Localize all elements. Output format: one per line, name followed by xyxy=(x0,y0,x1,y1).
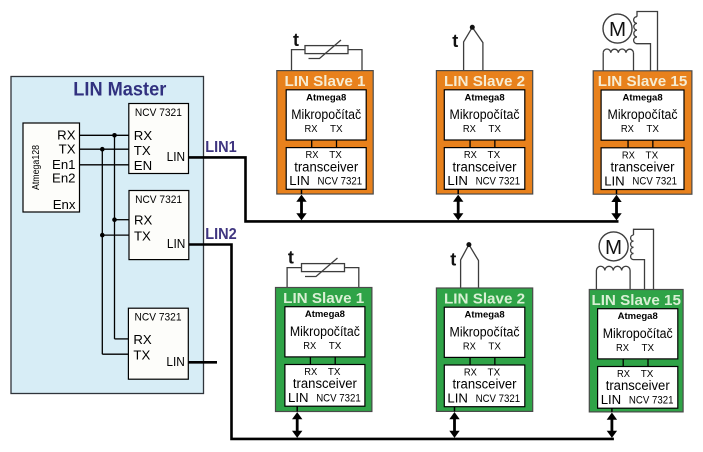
LIN Slave 15 TX wire between MCU and transceiver xyxy=(652,140,654,148)
LIN Slave 1 bus connection double arrow xyxy=(292,412,302,438)
svg-text:RX: RX xyxy=(303,341,316,352)
svg-text:M: M xyxy=(609,18,626,41)
LIN Slave 2 microcontroller Atmega8 box xyxy=(444,90,525,140)
thermocouple temperature probe xyxy=(450,242,478,288)
LIN1 bus wire from NCV1 xyxy=(189,157,619,221)
junction dot TX-NCV2 xyxy=(100,233,105,238)
LIN3 stub wire from NCV3 xyxy=(188,361,217,364)
LIN Slave 2 transceiver NCV 7321 box xyxy=(444,148,525,190)
thermistor temperature sensor xyxy=(292,30,363,71)
svg-text:LIN Slave 1: LIN Slave 1 xyxy=(283,290,365,307)
motor winding A (horizontal coil) xyxy=(596,266,630,289)
LIN Slave 1 microcontroller Atmega8 box xyxy=(285,307,365,357)
svg-text:NCV 7321: NCV 7321 xyxy=(135,194,182,206)
svg-text:LIN Slave 2: LIN Slave 2 xyxy=(444,290,525,307)
svg-text:LIN: LIN xyxy=(604,173,625,188)
svg-text:TX: TX xyxy=(330,124,343,135)
LIN Slave 15 LIN pin stub xyxy=(611,408,613,412)
LIN Slave 1 LIN pin stub xyxy=(296,406,298,411)
motor winding A (horizontal coil) xyxy=(603,49,633,71)
svg-text:LIN Slave 1: LIN Slave 1 xyxy=(284,73,366,90)
thermistor temperature sensor xyxy=(287,248,359,288)
LIN Slave 15 LIN pin stub xyxy=(616,190,618,195)
svg-text:LIN Master: LIN Master xyxy=(73,79,167,100)
svg-text:RX: RX xyxy=(621,124,634,135)
svg-text:transceiver: transceiver xyxy=(453,159,517,174)
LIN Slave 2 RX wire between MCU and transceiver xyxy=(469,140,471,148)
wire RX from Atmega128 to NCV1 xyxy=(80,134,129,136)
transceiver NCV 7321 #1 in master xyxy=(129,104,189,174)
LIN Slave 15 TX wire between MCU and transceiver xyxy=(647,359,649,367)
svg-text:LIN: LIN xyxy=(167,236,186,251)
svg-text:Atmega8: Atmega8 xyxy=(622,93,662,104)
LIN Slave 2 enclosure box xyxy=(436,71,532,194)
LIN Slave 2 microcontroller Atmega8 box xyxy=(444,307,525,357)
svg-text:NCV 7321: NCV 7321 xyxy=(316,392,361,404)
microcontroller Atmega128 xyxy=(23,123,80,212)
LIN Slave 15 RX wire between MCU and transceiver xyxy=(627,140,629,148)
svg-text:RX: RX xyxy=(134,213,153,228)
LIN2 bus wire from NCV2 xyxy=(189,245,614,439)
svg-text:Atmega8: Atmega8 xyxy=(306,92,346,103)
svg-text:Atmega8: Atmega8 xyxy=(305,309,345,320)
LIN Slave 2 enclosure box xyxy=(436,288,532,411)
LIN Slave 2 TX wire between MCU and transceiver xyxy=(494,357,496,365)
LIN Slave 15 microcontroller Atmega8 box xyxy=(601,90,684,140)
svg-text:TX: TX xyxy=(488,341,501,352)
LIN Slave 2 RX wire between MCU and transceiver xyxy=(469,357,471,365)
thermocouple temperature probe xyxy=(452,25,483,71)
svg-text:LIN Slave 15: LIN Slave 15 xyxy=(591,292,681,309)
svg-text:RX: RX xyxy=(133,332,152,347)
svg-text:t: t xyxy=(293,30,299,50)
motor winding B (vertical coil) xyxy=(634,12,658,71)
svg-text:Enx: Enx xyxy=(53,197,76,212)
LIN Slave 1 enclosure box xyxy=(276,288,372,412)
svg-text:transceiver: transceiver xyxy=(611,160,675,175)
LIN Slave 1 bus connection double arrow xyxy=(296,195,306,221)
transceiver NCV 7321 #2 in master xyxy=(129,191,189,260)
wire RX spur to NCV3 xyxy=(115,338,129,340)
svg-text:TX: TX xyxy=(646,124,659,135)
svg-text:NCV 7321: NCV 7321 xyxy=(476,393,521,405)
svg-text:TX: TX xyxy=(642,343,655,354)
svg-text:RX: RX xyxy=(305,124,318,135)
LIN Slave 1 transceiver NCV 7321 box xyxy=(286,148,366,190)
svg-text:NCV 7321: NCV 7321 xyxy=(632,176,677,188)
svg-text:NCV 7321: NCV 7321 xyxy=(135,107,182,119)
svg-text:LIN: LIN xyxy=(288,390,309,405)
LIN Slave 2 TX wire between MCU and transceiver xyxy=(494,140,496,148)
svg-text:LIN Slave 15: LIN Slave 15 xyxy=(598,73,688,90)
LIN Slave 15 microcontroller Atmega8 box xyxy=(598,309,678,359)
svg-text:transceiver: transceiver xyxy=(606,378,670,393)
LIN Slave 15 enclosure box xyxy=(593,71,692,194)
LIN Slave 2 bus connection double arrow xyxy=(449,412,459,438)
svg-text:RX: RX xyxy=(57,128,76,143)
svg-text:LIN: LIN xyxy=(601,392,622,407)
LIN Slave 15 bus connection double arrow xyxy=(611,195,621,221)
svg-text:M: M xyxy=(605,236,622,259)
wire TX spur to NCV2 xyxy=(102,234,129,236)
svg-text:EN: EN xyxy=(134,158,152,173)
LIN Slave 15 transceiver NCV 7321 box xyxy=(598,367,678,409)
LIN Slave 1 LIN pin stub xyxy=(301,189,303,194)
LIN Slave 15 transceiver NCV 7321 box xyxy=(601,148,684,190)
svg-text:Mikropočítač: Mikropočítač xyxy=(290,324,360,339)
svg-text:LIN1: LIN1 xyxy=(205,139,237,156)
svg-text:RX: RX xyxy=(463,341,476,352)
junction dot RX-NCV1 xyxy=(112,133,117,138)
junction dot TX-NCV1 xyxy=(100,147,105,152)
wire RX spur to NCV2 xyxy=(115,219,130,221)
LIN Slave 2 LIN pin stub xyxy=(454,407,456,412)
svg-text:Mikropočítač: Mikropočítač xyxy=(603,326,673,341)
LIN Slave 2 transceiver NCV 7321 box xyxy=(444,365,525,407)
svg-text:LIN: LIN xyxy=(289,173,310,188)
svg-text:transceiver: transceiver xyxy=(293,376,357,391)
LIN Slave 15 enclosure box xyxy=(589,290,683,412)
LIN Slave 15 bus connection double arrow xyxy=(607,413,617,438)
svg-text:En2: En2 xyxy=(52,171,75,186)
svg-text:transceiver: transceiver xyxy=(453,377,517,392)
svg-text:LIN: LIN xyxy=(447,173,468,188)
motor actuator M circle xyxy=(599,232,628,261)
LIN Slave 1 enclosure box xyxy=(277,71,373,194)
svg-text:NCV 7321: NCV 7321 xyxy=(135,312,182,324)
LIN Slave 1 RX wire between MCU and transceiver xyxy=(311,140,313,148)
svg-text:LIN: LIN xyxy=(447,391,468,406)
wire TX chain vertical xyxy=(101,149,103,354)
LIN Slave 1 transceiver NCV 7321 box xyxy=(285,365,365,407)
wire TX spur to NCV3 xyxy=(102,353,128,355)
svg-text:Atmega8: Atmega8 xyxy=(464,92,504,103)
wire RX chain vertical xyxy=(114,135,116,339)
svg-text:RX: RX xyxy=(616,343,629,354)
svg-text:t: t xyxy=(452,31,458,51)
svg-text:Atmega8: Atmega8 xyxy=(464,310,504,321)
svg-text:LIN2: LIN2 xyxy=(205,226,237,243)
motor actuator M circle xyxy=(603,14,632,43)
svg-text:TX: TX xyxy=(134,228,151,243)
svg-text:Atmega128: Atmega128 xyxy=(31,145,42,190)
svg-text:TX: TX xyxy=(329,341,342,352)
transceiver NCV 7321 #3 in master xyxy=(128,308,188,379)
svg-text:transceiver: transceiver xyxy=(294,159,358,174)
svg-text:NCV 7321: NCV 7321 xyxy=(476,176,521,188)
svg-text:TX: TX xyxy=(133,347,150,362)
LIN Slave 15 RX wire between MCU and transceiver xyxy=(622,359,624,367)
LIN Slave 1 TX wire between MCU and transceiver xyxy=(334,357,336,365)
svg-text:Mikropočítač: Mikropočítač xyxy=(291,107,361,122)
svg-text:TX: TX xyxy=(134,143,151,158)
LIN Slave 1 TX wire between MCU and transceiver xyxy=(336,140,338,148)
svg-text:t: t xyxy=(288,248,294,268)
junction dot RX-NCV2 xyxy=(112,217,117,222)
svg-text:TX: TX xyxy=(488,124,501,135)
svg-text:LIN: LIN xyxy=(167,149,186,164)
svg-text:RX: RX xyxy=(463,124,476,135)
svg-text:Mikropočítač: Mikropočítač xyxy=(450,107,520,122)
wire En1 from Atmega128 to NCV1 EN xyxy=(80,164,129,166)
LIN Master enclosure xyxy=(11,77,204,394)
LIN Slave 1 RX wire between MCU and transceiver xyxy=(309,357,311,365)
svg-text:LIN: LIN xyxy=(166,354,185,369)
wire TX from Atmega128 to NCV1 xyxy=(80,148,129,150)
LIN Slave 1 microcontroller Atmega8 box xyxy=(286,90,366,140)
svg-text:Atmega8: Atmega8 xyxy=(618,311,658,322)
svg-text:NCV 7321: NCV 7321 xyxy=(629,394,674,406)
svg-text:NCV 7321: NCV 7321 xyxy=(318,176,363,188)
svg-text:RX: RX xyxy=(134,128,153,143)
svg-text:LIN Slave 2: LIN Slave 2 xyxy=(444,73,525,90)
LIN Slave 2 bus connection double arrow xyxy=(453,195,463,221)
motor winding B (vertical coil) xyxy=(631,229,654,289)
svg-text:TX: TX xyxy=(59,141,76,156)
svg-text:Mikropočítač: Mikropočítač xyxy=(450,324,520,339)
svg-text:t: t xyxy=(450,250,456,270)
LIN Slave 2 LIN pin stub xyxy=(457,189,459,194)
svg-text:Mikropočítač: Mikropočítač xyxy=(608,107,678,122)
